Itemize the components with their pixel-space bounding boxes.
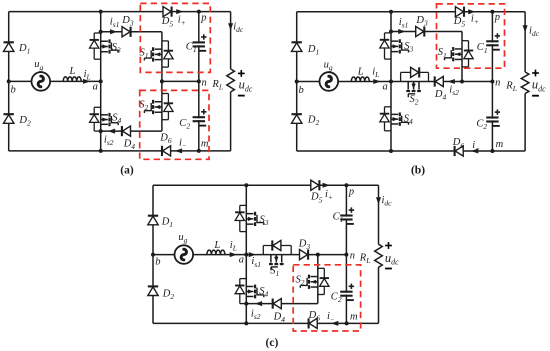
junction of i_s1 branch [99,30,103,34]
current arrow i_s2 [255,301,262,306]
svg-text:idc: idc [529,26,540,39]
current arrow i_dc [376,197,381,204]
svg-text:n: n [495,78,500,89]
red dashed highlight box around D5 S1 C1 [437,4,505,68]
transistor S1 [162,40,169,42]
diode D5 [311,180,319,190]
capacitor C1 [490,42,494,44]
load resistor R_L [521,72,529,94]
figure (b) middle leg wire [390,12,392,151]
svg-text:is1: is1 [251,256,261,269]
svg-text:RL: RL [505,81,517,94]
svg-text:RL: RL [359,252,371,265]
svg-text:i−: i− [327,311,334,324]
svg-text:ug: ug [34,59,43,72]
svg-text:S3: S3 [112,42,121,55]
load resistor R_L [375,244,383,267]
transistor S2 on middle branch [400,72,402,81]
svg-text:p: p [348,187,354,198]
current arrow i_s1 [398,29,405,34]
svg-text:n: n [202,78,207,89]
svg-text:D1: D1 [161,217,173,230]
svg-text:i−: i− [472,140,479,153]
figure (c) S2 lead wire [317,255,319,304]
node p [490,10,494,14]
figure (a) left rail wire [8,12,10,151]
figure (a) wire from node b to node a [9,80,101,82]
svg-text:(c): (c) [266,337,279,349]
svg-text:S1: S1 [270,266,279,279]
svg-text:L: L [69,66,76,77]
output voltage u_dc plus sign [385,245,392,247]
current arrow i [471,149,478,154]
svg-text:is2: is2 [251,309,261,322]
diode D4 [273,299,281,309]
diode D6 [455,146,463,156]
inductor L [63,77,81,81]
svg-text:RL: RL [211,79,223,92]
svg-text:m: m [496,139,504,150]
transistor S4 [94,106,101,108]
svg-text:D3: D3 [298,238,311,251]
capacitor C2 [344,293,348,295]
svg-text:S4: S4 [404,114,413,127]
figure (c) bottom rail wire [153,322,379,324]
svg-text:is1: is1 [110,17,120,30]
AC source u_g [320,72,339,91]
diode D5 [163,7,171,17]
current arrow i_minus [175,148,182,153]
svg-text:is2: is2 [449,84,459,97]
svg-text:m: m [201,138,209,149]
inductor L [351,77,369,82]
svg-text:D4: D4 [123,139,136,152]
current arrow i_plus [468,9,475,14]
diode D3 [122,27,130,37]
current arrow i_s2 [448,79,455,84]
output voltage u_dc minus sign [532,95,539,97]
node n [197,79,201,83]
figure (a) bottom rail wire [9,150,231,152]
figure (c) i_s2 branch wire with D4 [246,303,317,305]
output voltage u_dc minus sign [385,268,392,270]
svg-text:D5: D5 [161,16,174,29]
svg-text:iL: iL [372,67,379,80]
svg-text:D6: D6 [159,132,172,145]
node b [295,80,299,84]
capacitor C2 [197,118,201,120]
figure (a) wire from S1/S2 midpoint to node n [162,80,199,82]
node b [7,79,11,83]
capacitor C1 [197,44,201,46]
svg-text:L: L [213,240,220,251]
svg-text:iL: iL [84,69,91,82]
current arrow i_dc [523,25,528,32]
node n [490,80,494,84]
svg-text:a: a [93,82,98,93]
current arrow i_L [373,79,380,84]
junction of leg and bottom rail [389,149,393,153]
svg-text:b: b [11,85,16,96]
AC source u_g [32,72,51,91]
figure (b) right rail wire upper segment [524,12,526,72]
node m [197,149,201,153]
node a [99,79,103,83]
svg-text:ug: ug [324,59,333,72]
svg-text:n: n [350,250,355,261]
figure (b) left rail wire [296,12,298,151]
figure (b) bottom rail wire [297,150,525,152]
current arrow i_dc [228,23,233,30]
svg-text:S3: S3 [260,214,269,227]
node m [345,321,349,325]
AC source u_g [175,245,194,264]
svg-text:idc: idc [233,21,244,34]
svg-text:S2: S2 [296,274,305,287]
figure (a) top rail wire [9,11,231,13]
svg-text:a: a [239,255,244,266]
svg-text:idc: idc [382,195,393,208]
current arrow i_plus [176,9,183,14]
transistor S3 [240,204,247,206]
node a [389,80,393,84]
current arrow i_s1 [249,252,256,257]
current arrow i_s1 [110,29,117,34]
figure (c) middle leg wire [245,185,247,323]
diode D2 [292,115,302,124]
svg-text:S4: S4 [259,286,268,299]
transistor S1 on middle branch [262,246,264,255]
current arrow i_plus [323,183,330,188]
svg-text:i+: i+ [325,189,333,202]
figure (a) i_s1 branch wire to S1 [101,31,162,33]
capacitor C2 [490,119,494,121]
svg-text:udc: udc [239,78,253,94]
svg-text:b: b [155,257,160,268]
node m [490,149,494,153]
figure (a) middle leg wire [100,12,102,151]
svg-text:S1: S1 [438,47,447,60]
transistor S3 [94,32,101,34]
figure (a) output column wire p-C1-n-C2-m [198,12,200,82]
node p [344,183,348,187]
junction of i_s1 branch [389,30,393,34]
diode D3 [300,250,308,260]
svg-text:C1: C1 [333,211,344,224]
transistor S2 [318,267,325,269]
transistor S4 [385,106,392,108]
figure (a) i_s2 branch wire with D4 [101,130,162,132]
svg-text:(b): (b) [411,164,425,176]
svg-text:is1: is1 [399,17,409,30]
current arrow i_L [230,252,237,257]
junction of i_s2 branch [99,129,103,133]
svg-text:S4: S4 [112,112,121,125]
figure (b) output column wire p-C1-n-C2-m [491,12,493,151]
diode D6 [163,146,171,156]
node p [197,10,201,14]
svg-text:p: p [200,12,206,23]
output voltage u_dc minus sign [238,95,245,97]
figure (c) left rail wire [152,185,154,323]
figure (c) wire from node a to node n with S1 and D3 [246,254,346,256]
output voltage u_dc plus sign [238,72,245,74]
transistor S2 [162,93,169,95]
current arrow i [331,321,338,326]
figure (a) S2 lead wire [161,81,163,131]
svg-text:udc: udc [385,251,399,267]
junction below S1 [460,80,464,84]
svg-text:m: m [350,312,358,323]
transistor S4 [240,278,247,280]
svg-text:a: a [383,81,388,92]
figure (c) output column wire p-C1-n-C2-m [345,185,347,323]
red dashed highlight box around S2 C2 D6 [293,265,360,331]
diode D2 [148,287,158,296]
junction of leg and top rail [99,10,103,14]
current arrow i_L [83,79,90,84]
junction of leg and bottom rail [244,321,248,325]
figure (c) wire from node b to node a [153,254,246,256]
svg-text:C2: C2 [179,118,190,131]
diode D1 [292,43,302,52]
svg-text:C2: C2 [331,292,342,305]
svg-text:S2: S2 [139,99,148,112]
output voltage u_dc plus sign [532,72,539,74]
red dashed highlight box around D5 S1 C1 [140,3,210,72]
svg-text:D2: D2 [18,115,31,128]
junction above S2 [316,253,320,257]
figure (b) wire from node a to node n with S2 and D4 [391,81,492,83]
transistor S3 [385,32,392,34]
red dashed highlight box around S2 C2 D6 [140,90,209,159]
junction of i_s2 branch [244,302,248,306]
svg-text:iL: iL [230,240,237,253]
svg-text:D5: D5 [453,16,466,29]
svg-text:D4: D4 [273,311,286,324]
diode D3 [416,26,424,36]
svg-text:D1: D1 [307,44,319,57]
diode D5 [455,7,463,17]
svg-text:i+: i+ [178,15,186,28]
diode D1 [4,43,14,52]
svg-text:D1: D1 [18,43,30,56]
node n [344,253,348,257]
svg-text:ug: ug [178,232,187,245]
svg-text:D3: D3 [415,15,428,28]
figure (a) right rail wire lower segment [230,92,232,151]
svg-text:b: b [299,85,304,96]
transistor S1 [462,40,469,42]
diode D4 [122,126,130,136]
diode D6 [309,318,317,328]
load resistor R_L [227,69,235,92]
svg-text:C2: C2 [476,118,487,131]
svg-text:S3: S3 [404,41,413,54]
svg-text:C1: C1 [477,42,488,55]
current arrow i_s2 [108,129,115,134]
svg-text:S2: S2 [410,94,419,107]
junction below S1 [160,79,164,83]
svg-text:D4: D4 [434,89,447,102]
diode D4 [435,76,443,86]
svg-text:i+: i+ [471,13,479,26]
node b [151,253,155,257]
diode D2 [4,115,14,124]
figure (b) wire from node b to node a [297,81,391,83]
svg-text:L: L [357,66,364,77]
figure (a) right rail wire upper segment [230,12,232,69]
figure (b) right rail wire lower segment [524,94,526,152]
figure (b) top rail wire [297,11,525,13]
svg-text:D6: D6 [308,310,321,323]
diode D1 [148,216,158,225]
junction of leg and top rail [389,10,393,14]
svg-text:is2: is2 [104,135,114,148]
figure (b) i_s1 branch wire to S1 [391,31,462,33]
svg-text:i−: i− [179,138,186,151]
svg-text:D2: D2 [307,115,320,128]
svg-text:D3: D3 [121,15,134,28]
svg-text:(a): (a) [120,164,134,176]
svg-text:udc: udc [532,78,546,94]
junction of leg and top rail [244,183,248,187]
capacitor C1 [344,217,348,219]
figure (c) right rail wire upper segment [378,185,380,244]
figure (c) top rail wire [153,184,379,186]
inductor L [207,250,225,255]
svg-text:D2: D2 [162,288,175,301]
svg-text:D5: D5 [310,192,323,205]
svg-text:p: p [494,12,500,23]
svg-text:D6: D6 [452,137,465,150]
figure (c) right rail wire lower segment [378,267,380,323]
junction of leg and bottom rail [99,149,103,153]
node a [244,253,248,257]
